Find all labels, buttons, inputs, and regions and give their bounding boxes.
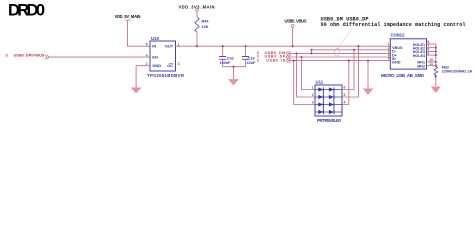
svg-text:DRD0: DRD0	[8, 2, 45, 20]
wire U11 pin1 from USB0_DP	[302, 57, 316, 90]
ground arrow below FB2	[431, 87, 440, 93]
svg-text:3: 3	[257, 58, 259, 62]
wire VDD_5V_MAIN to U10 IN	[128, 21, 151, 46]
svg-text:GND: GND	[392, 61, 401, 65]
svg-text:TPS2051BDBVR: TPS2051BDBVR	[147, 73, 185, 78]
node HOLE3	[435, 50, 437, 52]
capacitor C19	[245, 46, 247, 66]
op-amp U10 TPS2051B power switch	[150, 41, 176, 71]
node U11 pin4/ID	[348, 60, 350, 62]
svg-text:PRTR5V0U4Y: PRTR5V0U4Y	[317, 118, 342, 123]
wire U10 GND to ground	[136, 66, 150, 88]
wire U11 pin6 to VBUS row	[342, 50, 354, 90]
wire shield collector	[435, 44, 437, 66]
annotation ellipse	[333, 48, 340, 57]
svg-text:5: 5	[388, 57, 390, 61]
svg-text:100nF: 100nF	[220, 61, 232, 65]
node FB2 bottom	[435, 75, 437, 77]
connector CON12 MICRO_USB_AB_SMD	[390, 39, 426, 69]
wire VBUS row (U10 OUT to CON12)	[176, 45, 391, 47]
svg-text:MH2: MH2	[417, 64, 425, 68]
svg-text:220R/100MHz 2A: 220R/100MHz 2A	[442, 70, 473, 74]
node HOLE2	[435, 47, 437, 49]
wire USB0_ID to connector ID	[289, 60, 390, 62]
node GND elbow	[367, 60, 369, 62]
annotation pointer line	[337, 29, 352, 49]
node U11 pin1/DP	[300, 56, 302, 58]
svg-text:USB0_DRVVBUS: USB0_DRVVBUS	[14, 53, 45, 58]
wire MH1 stub	[427, 61, 436, 63]
svg-text:U11: U11	[316, 80, 324, 85]
svg-text:MICRO_USB_AB_SMD: MICRO_USB_AB_SMD	[381, 73, 424, 78]
node R44/VBUS	[196, 45, 198, 47]
node C19/VBUS	[244, 45, 246, 47]
svg-text:EN: EN	[152, 55, 158, 60]
wire U11 pin3 from USB0_ID	[294, 61, 315, 105]
ground arrow below U10	[131, 88, 141, 94]
wire VDD_3V3_MAIN to R44	[196, 11, 198, 17]
svg-text:90 ohm differential impedance: 90 ohm differential impedance matching c…	[321, 22, 466, 28]
node D- jog top	[310, 49, 312, 51]
ground arrow below capacitors	[228, 79, 238, 85]
wire HOLE3 stub	[427, 50, 436, 52]
node HOLE4	[435, 54, 437, 56]
ferrite bead FB2	[434, 66, 438, 75]
node MH2	[435, 65, 437, 67]
svg-text:10K: 10K	[202, 25, 209, 29]
svg-text:HOLE4: HOLE4	[413, 54, 426, 58]
node U11 pin2/DM	[295, 52, 297, 54]
capacitor C32	[222, 46, 224, 66]
svg-text:6: 6	[344, 86, 346, 90]
svg-text:1: 1	[312, 86, 314, 90]
svg-text:4: 4	[146, 53, 148, 57]
wire FB2 to ground	[435, 75, 437, 86]
svg-text:OUT: OUT	[165, 44, 174, 49]
svg-text:VDD_5V_MAIN: VDD_5V_MAIN	[115, 14, 141, 19]
diode row 2	[318, 95, 323, 99]
svg-text:4: 4	[344, 101, 346, 105]
node cap rail	[232, 66, 234, 68]
wire R44 to VBUS row	[196, 33, 198, 47]
svg-text:2: 2	[312, 93, 314, 97]
svg-text:R44: R44	[202, 19, 210, 23]
svg-text:5: 5	[146, 42, 148, 46]
wire connector GND to ground	[367, 61, 369, 89]
svg-text:GND: GND	[152, 63, 161, 68]
diode row 3	[318, 102, 323, 106]
svg-text:5: 5	[344, 93, 346, 97]
wire HOLE2 stub	[427, 47, 436, 49]
wire USB0_VBUS drop	[292, 27, 294, 46]
diode row 4	[318, 110, 323, 114]
resistor R44	[195, 17, 199, 32]
wire U11 pin4 to USB0_DP	[342, 61, 349, 105]
ground arrow near U11	[363, 89, 373, 95]
wire U11 pin5 to USB0_DM	[342, 46, 359, 97]
svg-text:USB0_ID: USB0_ID	[266, 58, 285, 62]
wire USB0_DP to connector D+	[289, 56, 390, 58]
node MH1	[435, 61, 437, 63]
node U11 pin5/VBUS	[357, 45, 359, 47]
wire capacitor ground rail	[223, 67, 246, 79]
wire HOLE1 stub	[427, 43, 436, 45]
diode row 1	[318, 87, 323, 91]
wire MH2 stub	[427, 65, 436, 67]
svg-text:22uF: 22uF	[247, 61, 257, 65]
node C32/VBUS	[222, 45, 224, 47]
svg-text:CON12: CON12	[391, 33, 406, 38]
wire D- jog	[312, 50, 391, 54]
wire USB0_DM to connector D-	[289, 52, 390, 54]
node U11 pin3/ID	[293, 60, 295, 62]
svg-text:3: 3	[312, 101, 314, 105]
node U11 pin6/D-	[353, 49, 355, 51]
svg-text:USB0_VBUS: USB0_VBUS	[285, 19, 307, 24]
wire USB0_DRVVBUS to U10 EN	[49, 56, 150, 58]
svg-text:3: 3	[178, 62, 180, 66]
svg-text:IN: IN	[152, 44, 156, 49]
ESD diode array U11 PRTR5V0U4Y	[315, 85, 342, 116]
node D- jog bottom	[310, 52, 312, 54]
junction dots	[196, 45, 437, 68]
wire U11 pin2 from USB0_DM	[297, 53, 316, 97]
wire HOLE4 stub	[427, 54, 436, 56]
svg-text:OC: OC	[167, 63, 173, 68]
node USB0_VBUS/VBUS	[292, 45, 294, 47]
svg-text:U10: U10	[151, 36, 159, 41]
